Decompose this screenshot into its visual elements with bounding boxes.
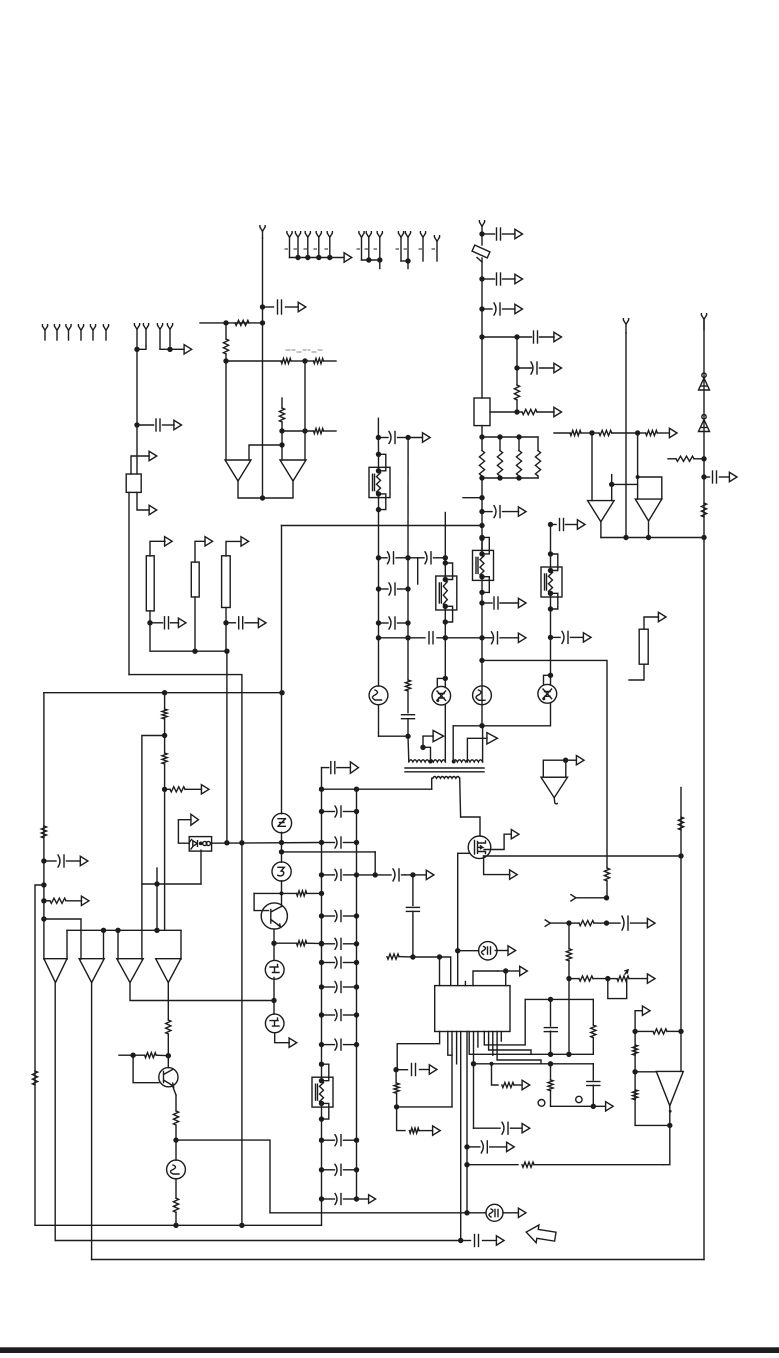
capacitor C22 [551, 631, 584, 643]
transistor Q7 [167, 1160, 186, 1179]
wire [638, 477, 662, 499]
wire [413, 956, 440, 958]
current loop [608, 979, 627, 999]
resistor R24 [173, 1179, 178, 1225]
signal arrow [191, 814, 199, 825]
test point TP2 [576, 1096, 582, 1102]
node J5 [455, 948, 460, 953]
wire [176, 1140, 270, 1213]
capacitor CL7 [319, 982, 359, 993]
resistor R4 [305, 358, 336, 363]
wire [275, 1033, 290, 1043]
capacitor C25 [544, 999, 557, 1054]
node I2 [376, 586, 381, 591]
connector group CN3 [396, 232, 435, 264]
resistor R30 [548, 1064, 553, 1107]
wire [467, 1212, 486, 1214]
op-amp U8 [117, 959, 143, 983]
wire [136, 425, 138, 474]
wire [680, 788, 682, 1032]
resistor R45 [638, 430, 670, 435]
signal arrow [487, 733, 498, 744]
wire [133, 1055, 159, 1083]
signal arrow [344, 253, 352, 262]
signal arrow [357, 1195, 376, 1204]
resistor R39 [678, 817, 683, 830]
wire [458, 950, 479, 952]
wire [212, 842, 322, 845]
coil filter FL2 [473, 535, 494, 595]
capacitor C19 [418, 552, 446, 564]
coil filter FL1 [369, 452, 390, 513]
signal arrow [647, 974, 655, 983]
resistor R27 [394, 1070, 399, 1107]
signal arrow [298, 302, 306, 311]
IC pin 13 wire [497, 1032, 541, 1064]
wire [273, 943, 275, 959]
wire [484, 856, 510, 875]
wire [282, 851, 376, 853]
capacitor C11 [150, 617, 179, 629]
resistor R34 [569, 976, 608, 981]
mosfet Q12 [468, 836, 491, 859]
signal arrow [583, 633, 591, 642]
signal arrow [510, 870, 518, 879]
wire [407, 558, 409, 680]
wire [150, 541, 165, 556]
resistor R7 [514, 368, 519, 412]
node H4 [410, 872, 415, 877]
wire [635, 1124, 670, 1126]
capacitor C0 [263, 300, 299, 314]
wire [281, 881, 283, 894]
wire [281, 445, 283, 460]
wire [356, 789, 358, 1199]
wire [473, 971, 498, 986]
wire [457, 951, 459, 986]
resistor R28 [409, 1128, 432, 1133]
wire [54, 983, 56, 1241]
wire [225, 361, 227, 460]
node A2 [167, 347, 172, 352]
triac Q9 [432, 686, 451, 705]
capacitor C20 [402, 715, 415, 719]
signal arrow [165, 537, 173, 546]
wire [379, 735, 409, 737]
node E5 [162, 787, 167, 792]
node M3 [566, 1052, 571, 1057]
coil filter FL4 [541, 551, 562, 611]
wire [379, 637, 409, 639]
open terminal J4 [78, 325, 83, 340]
signal arrow [429, 1065, 437, 1074]
wire [635, 1071, 656, 1073]
op-amp U4 [280, 460, 306, 481]
IC pin 7 wire [469, 1032, 593, 1055]
node I1 [376, 555, 381, 560]
node R2n [701, 474, 706, 479]
node C9 [497, 434, 502, 439]
node C20 [479, 635, 484, 640]
signal arrow [81, 896, 89, 905]
node K3 [471, 1061, 476, 1066]
signal arrow [511, 830, 519, 839]
wire [467, 738, 487, 762]
signal arrow [554, 332, 562, 341]
resistor R41 [668, 456, 704, 461]
capacitor C24 [396, 1064, 429, 1076]
node A3 [134, 422, 139, 427]
resistor R38 [633, 1090, 638, 1100]
IC pin 14 wire [500, 1032, 502, 1042]
wire [281, 431, 283, 445]
node S3 [636, 475, 640, 479]
signal arrow [606, 1102, 614, 1111]
node I13 [548, 635, 553, 640]
wire [67, 929, 181, 931]
node B0 [260, 304, 265, 309]
wire [322, 788, 432, 790]
signal arrow [149, 505, 157, 514]
capacitor C30 [461, 1235, 497, 1247]
signal arrow [80, 856, 88, 865]
wire [291, 360, 305, 362]
open terminal [479, 221, 484, 234]
signal arrow [433, 730, 444, 741]
node B1 [223, 320, 228, 325]
transformer T1 core [405, 768, 484, 772]
signal arrow [496, 1236, 504, 1245]
node H3 [373, 872, 378, 877]
transformer T1 primary B [453, 760, 482, 762]
wire [444, 622, 446, 678]
transistor Q14 [486, 1204, 503, 1221]
node C7 [514, 409, 519, 414]
transformer T1 secondary [433, 777, 460, 779]
signal arrow [518, 633, 526, 642]
capacitor C4 [482, 303, 515, 315]
wire [498, 970, 520, 972]
node M2 [548, 1052, 553, 1057]
node N2 [566, 920, 571, 925]
wire [612, 483, 638, 485]
connector group CN2 [357, 232, 382, 263]
wire [281, 693, 283, 814]
IC pin 3 wire [451, 1032, 453, 1107]
node M4 [548, 1061, 553, 1066]
node I0 [376, 435, 381, 440]
resistor R29 [591, 999, 596, 1054]
capacitor C17 [379, 583, 409, 595]
resistor R10 [497, 437, 502, 478]
resistor pack RP2 [191, 562, 199, 597]
page arrow [525, 1223, 557, 1245]
node T1b [420, 745, 425, 750]
capacitor C21 [551, 519, 578, 531]
node M5 [591, 1104, 596, 1109]
wire [459, 778, 462, 817]
node I12 [548, 522, 553, 527]
capacitor C12 [226, 617, 259, 629]
resistor R5 [279, 398, 284, 431]
signal arrow [522, 1124, 530, 1133]
op-amp U12 [588, 501, 615, 522]
transistor Q3 [261, 903, 287, 929]
resistor R9 [479, 437, 484, 478]
coil filter FL3 [436, 560, 457, 624]
resistor R13 [162, 693, 167, 736]
wire [378, 510, 380, 686]
node N4 [566, 976, 571, 981]
wire [44, 919, 81, 959]
wire [490, 411, 517, 413]
resistor pack RP3 [222, 556, 231, 608]
op-amp U15 [541, 777, 568, 804]
zener D2 [699, 415, 710, 432]
resistor R40 [522, 1162, 663, 1167]
open terminal pair [134, 324, 148, 350]
wire [576, 897, 607, 899]
wire [225, 608, 227, 623]
capacitor CL3 [319, 869, 359, 880]
signal arrow [729, 472, 737, 481]
transistor Q6 [159, 1068, 178, 1087]
triac Q10 [538, 684, 557, 703]
capacitor C3 [482, 273, 515, 285]
node E10 [101, 928, 106, 933]
signal arrow [174, 420, 182, 429]
wire [136, 349, 138, 425]
wire [249, 445, 282, 460]
wire [566, 759, 577, 761]
resistor pack RP4 [639, 629, 648, 664]
wire [484, 855, 681, 857]
node C8 [479, 434, 484, 439]
node G3 [173, 1137, 178, 1142]
IC pin 10 wire [484, 999, 525, 1045]
node J1 [678, 853, 683, 858]
wire [397, 1106, 452, 1108]
wire [180, 930, 182, 959]
resistor pack RP1 [146, 556, 154, 611]
node H2 [354, 787, 359, 792]
node A1 [134, 347, 139, 352]
wire [481, 426, 483, 437]
resistor R1 [235, 320, 249, 325]
wire [178, 820, 191, 844]
signal arrow [507, 1142, 515, 1151]
resistor R35 [608, 970, 648, 981]
resistor R42 [701, 503, 706, 517]
wire [452, 726, 454, 762]
wire [453, 703, 550, 726]
wire [412, 875, 414, 906]
wire [492, 1064, 499, 1085]
wire [397, 1107, 405, 1131]
resistor R14 [162, 736, 167, 790]
node C6 [514, 365, 519, 370]
node F4 [279, 840, 284, 845]
node F9 [271, 941, 276, 946]
capacitor CL9 [319, 1039, 359, 1050]
wire [648, 521, 650, 538]
capacitor C1 [137, 419, 174, 431]
node K2 [394, 1104, 399, 1109]
zener D1 [699, 373, 710, 390]
signal arrow [201, 785, 209, 794]
op-amp U6 [44, 959, 67, 983]
wire [703, 320, 705, 1260]
resistor R11 [516, 437, 521, 478]
open terminal J6 [103, 325, 108, 340]
wire [273, 1001, 275, 1015]
wire [194, 597, 196, 651]
wire [304, 431, 306, 460]
wire [91, 983, 93, 1260]
signal arrow [520, 966, 528, 975]
wire [423, 736, 433, 747]
node C17 [479, 536, 484, 541]
node C3 [479, 306, 484, 311]
signal arrow [241, 537, 249, 546]
IC pin 11 wire [489, 1032, 531, 1055]
node C4 [479, 334, 484, 339]
wire [150, 623, 227, 651]
signal arrow [642, 1006, 650, 1015]
wire [379, 260, 381, 269]
wire [281, 526, 283, 693]
wire [149, 611, 151, 623]
node I8 [405, 620, 410, 625]
wire [273, 978, 275, 1001]
resistor R16 [41, 826, 46, 838]
node N3 [604, 920, 609, 925]
open terminal [701, 314, 706, 330]
node E8 [41, 898, 46, 903]
node I4 [376, 635, 381, 640]
wire [635, 1010, 642, 1012]
wire [606, 881, 608, 898]
wire [254, 892, 281, 894]
node E6 [41, 858, 46, 863]
open terminal [571, 895, 576, 901]
capacitor C15 [375, 869, 405, 881]
node F6 [280, 891, 284, 895]
signal arrow [554, 363, 562, 372]
wire [408, 557, 418, 559]
capacitor CL8 [319, 1010, 359, 1021]
node G4 [173, 1223, 178, 1228]
connector group CN1 [285, 232, 344, 261]
capacitor C27 [474, 1122, 523, 1134]
node E7 [41, 882, 46, 887]
resistor R26 [387, 954, 413, 959]
signal arrow [577, 520, 585, 529]
transistor Q2 [272, 862, 291, 881]
wire [445, 637, 482, 639]
capacitor C23 [406, 907, 419, 911]
signal arrow [518, 598, 526, 607]
wire [129, 675, 242, 843]
wire [482, 477, 538, 479]
capacitor C10 [482, 632, 519, 644]
transistor Q1 [272, 813, 292, 833]
capacitor CL1 [319, 806, 359, 817]
wire [482, 660, 607, 868]
resistor R22 [133, 1053, 168, 1058]
node C15 [479, 509, 484, 514]
wire [467, 1164, 518, 1166]
wire [481, 234, 483, 245]
wire [444, 705, 446, 762]
node F1 [154, 881, 159, 886]
resistor R31 [502, 1082, 522, 1087]
wire [591, 433, 593, 501]
note text [286, 350, 322, 352]
resistor R37 [633, 1045, 638, 1055]
wire [550, 675, 552, 685]
wire [321, 768, 323, 1065]
node F2 [224, 840, 229, 845]
wire [550, 922, 569, 924]
wire [167, 983, 169, 1020]
node C13 [479, 475, 484, 480]
node T1a [429, 760, 433, 764]
node E1 [162, 690, 167, 695]
resistor R2 [223, 323, 228, 361]
resistor R20 [274, 941, 322, 946]
wire [282, 525, 483, 527]
open terminal [260, 226, 265, 238]
transistor Q4 [265, 960, 284, 979]
capacitor C26 [587, 1064, 600, 1107]
node S5 [623, 535, 628, 540]
node S2 [635, 430, 640, 435]
controller IC U1 [435, 982, 510, 1032]
wire [281, 893, 283, 906]
wire [225, 623, 227, 651]
node I0b [405, 435, 410, 440]
resistor R46 [604, 868, 609, 881]
node B7 [279, 442, 284, 447]
node E11 [115, 928, 120, 933]
node I11 [443, 676, 448, 681]
optocoupler U10 [189, 837, 211, 852]
node C16 [479, 523, 484, 528]
resistor R21 [166, 1020, 171, 1056]
wire [482, 336, 517, 338]
wire [167, 1056, 169, 1068]
wire [461, 817, 480, 836]
signal arrow [205, 537, 213, 546]
op-amp U7 [79, 959, 104, 983]
wire [551, 1105, 606, 1107]
capacitor C8 [482, 597, 519, 609]
op-amp U3 [225, 460, 251, 481]
footer bar [0, 1347, 779, 1353]
wire [66, 930, 68, 959]
wire [43, 693, 45, 960]
node J4 [437, 954, 442, 959]
wire [173, 1086, 177, 1095]
node P4 [667, 1123, 672, 1128]
capacitor C28 [607, 916, 648, 930]
op-amp U11 [656, 1071, 683, 1105]
transistor Q11 [473, 686, 492, 705]
wire [611, 475, 613, 501]
capacitor C5 [517, 331, 554, 343]
wire [262, 238, 264, 498]
